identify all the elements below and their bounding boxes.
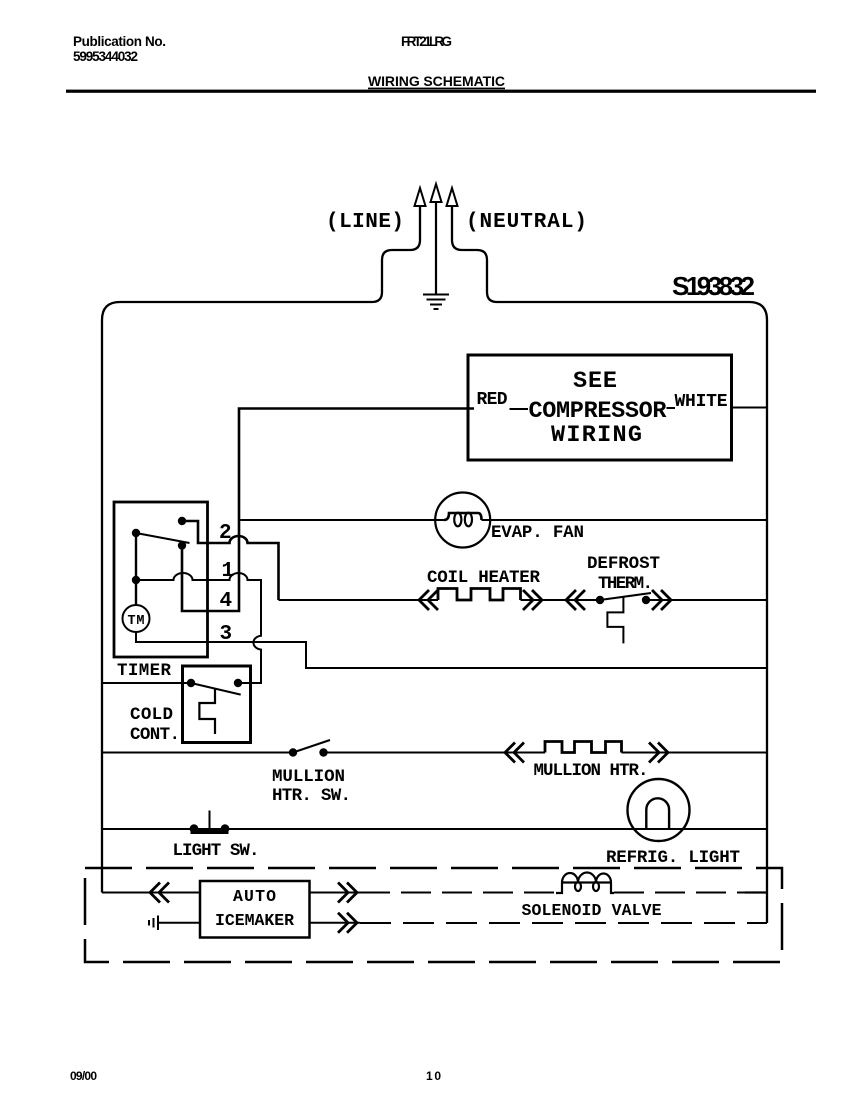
wire: right rail + top edge + NEUTRAL prong (452, 206, 767, 923)
defrost thermostat (596, 593, 651, 643)
svg-text:S193832: S193832 (672, 271, 755, 301)
wire: mullion heater row (102, 752, 767, 754)
header rule (66, 90, 816, 93)
connector chevrons (mullion left) (505, 743, 524, 763)
svg-text:THERM.: THERM. (598, 574, 653, 594)
svg-text:WIRING SCHEMATIC: WIRING SCHEMATIC (368, 73, 505, 89)
wire: red stub inside box (510, 408, 529, 410)
defrost therm label (587, 554, 660, 594)
wire: timer pivot down to TM (135, 533, 137, 605)
svg-text:(NEUTRAL): (NEUTRAL) (466, 211, 587, 234)
wire: contact 2 row with hop over red feed (182, 521, 279, 600)
chassis ground (icemaker) (149, 916, 200, 931)
wire: dashed solenoid feed (360, 892, 556, 894)
svg-text:5995344032: 5995344032 (73, 49, 138, 64)
wire: light row (102, 828, 767, 830)
svg-text:LIGHT SW.: LIGHT SW. (173, 841, 260, 861)
connector chevrons (coil heater left) (419, 590, 438, 610)
svg-text:MULLION HTR.: MULLION HTR. (534, 761, 649, 781)
svg-text:(LINE): (LINE) (326, 211, 404, 234)
evap fan motor (435, 493, 490, 548)
svg-text:EVAP. FAN: EVAP. FAN (491, 523, 584, 543)
cold control label (130, 705, 180, 745)
svg-text:AUTO: AUTO (233, 887, 276, 906)
neutral prong arrowhead (447, 188, 458, 206)
connector chevrons (coil heater right) (523, 590, 542, 610)
svg-text:TM: TM (128, 614, 145, 629)
wire: white to neutral rail (732, 407, 768, 409)
wire: icemaker feed from line rail (102, 892, 200, 894)
wire: coil heater row (279, 599, 768, 601)
connector chevrons (mullion right) (649, 743, 668, 763)
mullion heater switch (289, 740, 330, 757)
connector chevrons (icemaker top) (150, 883, 169, 903)
auto icemaker label (215, 887, 294, 930)
timer contact dot (row 1) (132, 576, 140, 584)
light switch (190, 811, 230, 834)
svg-text:COIL HEATER: COIL HEATER (427, 568, 540, 588)
svg-text:COMPRESSOR: COMPRESSOR (529, 398, 668, 425)
timer motor TM (123, 605, 150, 632)
earth prong arrowhead (431, 184, 442, 202)
wire: evap fan row (239, 519, 767, 521)
svg-text:REFRIG. LIGHT: REFRIG. LIGHT (606, 848, 740, 868)
svg-text:Publication No.: Publication No. (73, 34, 166, 49)
cold control contacts and arm (187, 679, 242, 734)
wire: left rail + top edge + LINE prong (102, 206, 420, 893)
publication number label (73, 34, 166, 64)
line prong arrowhead (415, 188, 426, 206)
svg-text:HTR. SW.: HTR. SW. (272, 786, 351, 806)
wire: solid end to rail (745, 891, 767, 893)
svg-text:WIRING: WIRING (551, 422, 642, 449)
svg-text:FRT21LRG: FRT21LRG (401, 34, 452, 49)
compressor wiring box (468, 355, 732, 460)
wire: contact 1 row with hops (136, 573, 261, 683)
wire: contact 3 row from TM (136, 632, 767, 668)
earth ground symbol (423, 295, 449, 310)
auto icemaker box (200, 881, 310, 938)
mullion heater element (545, 742, 622, 753)
connector chevrons (defrost right) (652, 590, 671, 610)
wire: dashed icemaker return to rail (360, 922, 767, 924)
timer contact dot (to 2) (178, 517, 186, 525)
svg-text:09/00: 09/00 (70, 1069, 97, 1083)
timer pivot dot (132, 529, 140, 537)
wire: white stub inside box (667, 407, 676, 409)
svg-text:RED: RED (477, 390, 508, 410)
title WIRING SCHEMATIC (368, 73, 505, 89)
svg-text:SOLENOID VALVE: SOLENOID VALVE (522, 901, 662, 920)
cold control box (183, 666, 251, 743)
coil heater element (438, 589, 521, 601)
svg-text:WHITE: WHITE (675, 392, 728, 412)
earth prong wire (435, 202, 437, 294)
wire: line rail to cold control (102, 682, 187, 684)
timer contact dot (red feed) (178, 541, 186, 549)
wire: red feed (down to timer) (182, 409, 474, 612)
svg-text:SEE: SEE (573, 368, 617, 395)
connector chevrons (icemaker top right) (338, 883, 357, 903)
timer box (114, 502, 208, 657)
wire: icemaker top output (310, 892, 361, 894)
svg-text:ICEMAKER: ICEMAKER (215, 911, 294, 930)
svg-text:10: 10 (426, 1069, 441, 1083)
svg-text:MULLION: MULLION (272, 767, 345, 787)
solenoid valve coil (556, 873, 614, 894)
wire: dashed solenoid to neutral rail (614, 892, 745, 894)
svg-text:DEFROST: DEFROST (587, 554, 660, 574)
mullion heater switch label (272, 767, 351, 806)
connector chevrons (defrost left) (566, 590, 585, 610)
svg-text:4: 4 (220, 590, 233, 613)
refrigerator light (628, 779, 690, 841)
connector chevrons (icemaker bottom right) (338, 913, 357, 933)
svg-text:COLD: COLD (130, 705, 173, 725)
wire: icemaker bottom output (310, 922, 361, 924)
timer switch arm (136, 533, 190, 543)
svg-text:TIMER: TIMER (117, 661, 171, 681)
compressor box label (529, 368, 668, 449)
icemaker dashed enclosure (85, 868, 782, 962)
svg-text:CONT.: CONT. (130, 725, 180, 745)
